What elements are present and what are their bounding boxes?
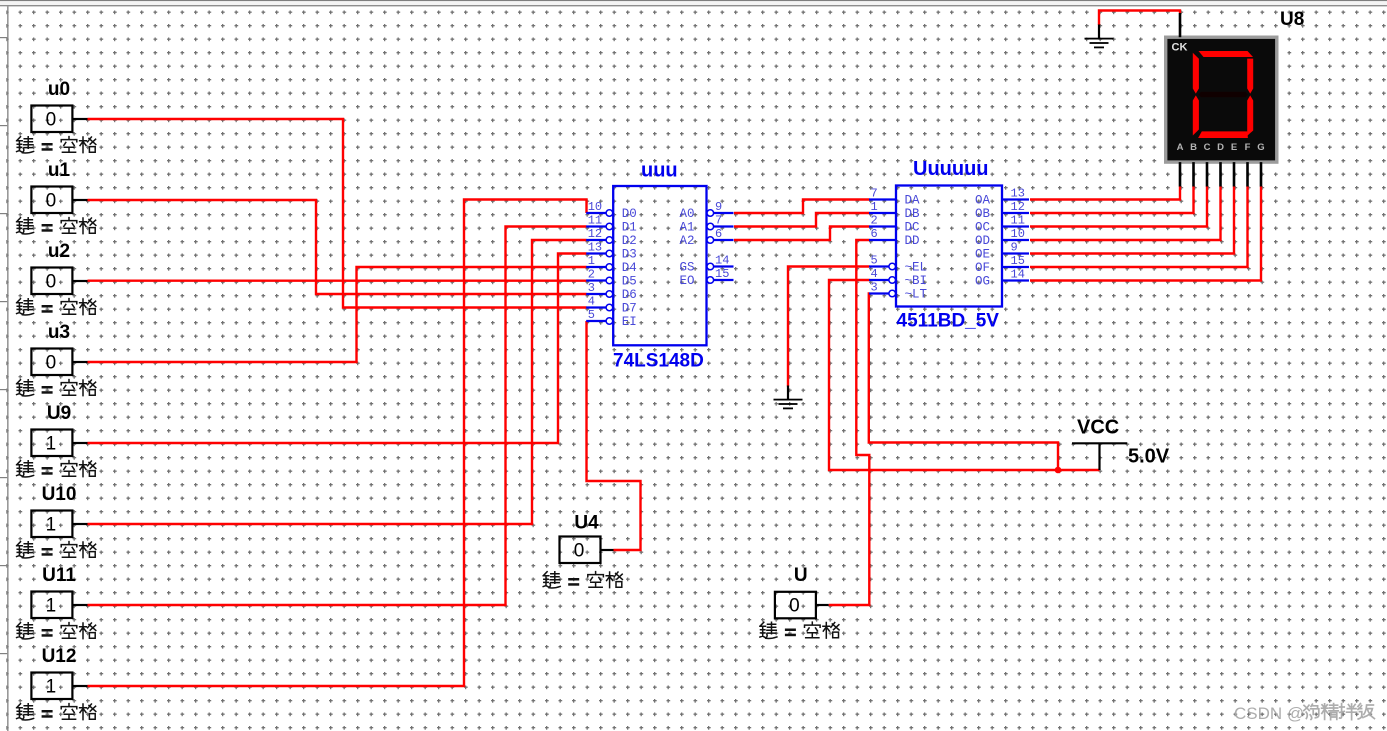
svg-text:OG: OG	[975, 275, 990, 289]
svg-text:4: 4	[588, 295, 595, 309]
svg-text:DB: DB	[905, 207, 921, 221]
pin 13 OA	[975, 187, 1029, 208]
wire A1 to DB	[734, 213, 870, 227]
wire OF to display F	[1030, 186, 1248, 267]
wire display CK to ground	[1099, 11, 1180, 26]
svg-text:D7: D7	[622, 302, 637, 316]
pin 14 GS	[679, 254, 733, 275]
svg-text:1: 1	[46, 677, 57, 698]
svg-text:0: 0	[46, 272, 57, 293]
svg-text:OE: OE	[975, 248, 990, 262]
svg-text:~EL: ~EL	[905, 261, 928, 275]
switch U (SPDT key component)	[760, 565, 839, 639]
wire u1 to D6	[88, 200, 587, 294]
pin 15 OF	[975, 254, 1029, 275]
svg-text:D5: D5	[622, 275, 637, 289]
wire OD to display D	[1030, 186, 1221, 240]
svg-text:u1: u1	[48, 160, 71, 181]
svg-text:10: 10	[1011, 227, 1025, 241]
svg-text:12: 12	[1011, 200, 1025, 214]
svg-text:2: 2	[588, 268, 595, 282]
svg-text:B: B	[1190, 142, 1197, 153]
pin 4 ~BI	[869, 267, 927, 288]
segment C lit	[1247, 95, 1253, 135]
svg-text:0: 0	[574, 541, 585, 562]
svg-text:OB: OB	[975, 207, 991, 221]
svg-text:1: 1	[46, 515, 57, 536]
svg-text:3: 3	[871, 281, 878, 295]
switch u1 (SPDT key component)	[17, 160, 96, 234]
svg-text:EI: EI	[622, 315, 637, 329]
svg-text:U9: U9	[47, 403, 71, 424]
svg-text:A0: A0	[679, 207, 694, 221]
pin 14 OG	[975, 268, 1029, 289]
svg-text:U8: U8	[1280, 9, 1304, 30]
pin 12 OB	[975, 200, 1029, 221]
svg-text:uuu: uuu	[641, 160, 678, 182]
ground GND1 (display CK)	[1085, 25, 1114, 49]
svg-text:E: E	[1231, 142, 1237, 153]
switch u3 (SPDT key component)	[17, 322, 96, 396]
pin 1 DB	[869, 200, 920, 221]
switch U4 (SPDT key component)	[543, 513, 622, 589]
pin 13 D3	[586, 241, 637, 262]
svg-text:DD: DD	[905, 234, 920, 248]
svg-text:GS: GS	[679, 261, 694, 275]
watermark CSDN	[1234, 704, 1374, 723]
pin 2 DC	[869, 214, 920, 235]
segment F lit	[1193, 53, 1199, 94]
wire U12 to D0	[88, 200, 587, 687]
svg-text:1: 1	[588, 254, 595, 268]
display body	[1166, 37, 1277, 162]
pin 5 ~EL	[869, 254, 927, 275]
wire OC to display C	[1030, 186, 1207, 227]
wire OG to display G	[1030, 186, 1261, 281]
svg-text:5.0V: 5.0V	[1128, 446, 1170, 468]
pin 10 D0	[586, 200, 637, 221]
svg-text:U10: U10	[42, 484, 77, 505]
svg-text:VCC: VCC	[1077, 417, 1119, 439]
svg-text:U: U	[794, 565, 808, 586]
svg-text:D4: D4	[622, 261, 637, 275]
svg-text:7: 7	[715, 214, 722, 228]
svg-text:CK: CK	[1172, 42, 1188, 54]
wire U9 to D3	[88, 254, 587, 444]
svg-text:D2: D2	[622, 234, 637, 248]
svg-text:5: 5	[588, 308, 595, 322]
svg-text:11: 11	[588, 214, 602, 228]
svg-text:11: 11	[1011, 214, 1025, 228]
pin 9 OE	[975, 241, 1029, 262]
svg-text:U4: U4	[574, 513, 599, 534]
svg-text:Uuuuuu: Uuuuuu	[913, 158, 989, 180]
svg-text:3: 3	[588, 281, 595, 295]
svg-text:9: 9	[715, 200, 722, 214]
svg-text:u0: u0	[48, 79, 70, 100]
svg-text:1: 1	[871, 200, 878, 214]
svg-text:A2: A2	[679, 234, 694, 248]
svg-text:EO: EO	[679, 274, 694, 288]
wire U11 to D1	[88, 227, 587, 606]
pin 1 D4	[586, 254, 637, 275]
segment D lit	[1198, 131, 1248, 138]
window top border	[0, 0, 1387, 1]
pin 3 D6	[586, 281, 637, 302]
pin D stub	[1219, 162, 1222, 186]
segment G unlit	[1199, 92, 1249, 97]
segment A lit	[1199, 51, 1254, 57]
pin 10 OD	[975, 227, 1029, 248]
svg-text:A: A	[1177, 142, 1184, 153]
svg-text:1: 1	[46, 434, 57, 455]
power VCC 5.0V	[1072, 417, 1170, 471]
pin 5 EI	[586, 308, 637, 329]
svg-text:0: 0	[789, 596, 800, 617]
svg-text:D3: D3	[622, 248, 637, 262]
svg-text:74LS148D: 74LS148D	[613, 351, 704, 372]
sheet left edge ruler	[0, 6, 6, 731]
svg-text:4: 4	[871, 267, 878, 281]
op-amp U6 4511BD_5V	[869, 158, 1029, 332]
switch U11 (SPDT key component)	[17, 565, 96, 639]
svg-text:0: 0	[46, 191, 57, 212]
svg-text:u3: u3	[48, 322, 70, 343]
pin F stub	[1246, 162, 1249, 186]
svg-text:2: 2	[871, 214, 878, 228]
pin C stub	[1206, 162, 1209, 186]
switch u0 (SPDT key component)	[17, 79, 96, 153]
wire OB to display B	[1030, 186, 1194, 213]
segment B lit	[1247, 59, 1253, 94]
svg-text:C: C	[1204, 142, 1211, 153]
pin 4 D7	[586, 295, 637, 316]
svg-text:D1: D1	[622, 221, 637, 235]
wire U10 to D2	[88, 240, 587, 524]
pin G stub	[1260, 162, 1263, 186]
svg-text:DC: DC	[905, 221, 920, 235]
pin 12 D2	[586, 227, 637, 248]
op-amp U5 74LS148D	[586, 160, 733, 372]
svg-text:15: 15	[1011, 254, 1025, 268]
svg-text:U12: U12	[42, 646, 77, 667]
svg-text:D: D	[1217, 142, 1224, 153]
wire U to DD	[829, 240, 870, 605]
wire A2 to DC	[734, 227, 870, 241]
ground GND2 (~EL)	[774, 386, 803, 410]
wire ~LT to VCC node	[869, 294, 1058, 471]
pin A stub	[1179, 162, 1182, 186]
svg-text:0: 0	[46, 353, 57, 374]
svg-text:~LT: ~LT	[905, 288, 928, 302]
pin 7 DA	[869, 187, 920, 208]
svg-text:D6: D6	[622, 288, 637, 302]
pin 11 D1	[586, 214, 637, 235]
pin 7 A1	[679, 214, 733, 235]
svg-text:U11: U11	[42, 565, 76, 586]
svg-text:G: G	[1257, 142, 1264, 153]
svg-text:A1: A1	[679, 221, 694, 235]
switch u2 (SPDT key component)	[17, 241, 96, 315]
switch U10 (SPDT key component)	[17, 484, 96, 558]
wire ~BI to VCC node	[829, 280, 1100, 470]
pin 15 EO	[679, 267, 733, 288]
wire ~EL to ground	[788, 267, 870, 387]
junction node VCC net	[1055, 467, 1062, 474]
svg-text:u2: u2	[48, 241, 70, 262]
svg-text:OC: OC	[975, 221, 990, 235]
svg-text:9: 9	[1011, 241, 1018, 255]
pin 11 OC	[975, 214, 1029, 235]
svg-text:OD: OD	[975, 234, 990, 248]
svg-text:CSDN @: CSDN @	[1234, 704, 1304, 723]
wire A0 to DA	[734, 200, 870, 214]
svg-text:0: 0	[46, 110, 57, 131]
wire U4 to EI	[587, 321, 641, 550]
svg-text:OF: OF	[975, 261, 990, 275]
wire u2 to D5	[88, 280, 587, 282]
pin CK stub	[1179, 13, 1182, 37]
svg-text:OA: OA	[975, 194, 991, 208]
pin B stub	[1192, 162, 1195, 186]
svg-text:10: 10	[588, 200, 602, 214]
svg-text:6: 6	[871, 227, 878, 241]
svg-text:7: 7	[871, 187, 878, 201]
svg-text:13: 13	[588, 241, 602, 255]
seven-segment display U8	[1166, 9, 1305, 187]
svg-text:6: 6	[715, 227, 722, 241]
switch U9 (SPDT key component)	[17, 403, 96, 477]
pin 6 A2	[679, 227, 733, 248]
svg-text:~BI: ~BI	[905, 274, 928, 288]
wire u0 to D7	[88, 119, 587, 308]
pin 2 D5	[586, 268, 637, 289]
switch U12 (SPDT key component)	[17, 646, 96, 720]
pin E stub	[1233, 162, 1236, 186]
svg-text:12: 12	[588, 227, 602, 241]
svg-text:F: F	[1245, 142, 1251, 153]
svg-text:13: 13	[1011, 187, 1025, 201]
svg-text:4511BD_5V: 4511BD_5V	[897, 311, 1000, 332]
svg-text:14: 14	[715, 254, 729, 268]
wire u3 to D4	[88, 267, 587, 362]
wire OA to display A	[1030, 186, 1180, 200]
svg-text:D0: D0	[622, 207, 637, 221]
svg-text:5: 5	[871, 254, 878, 268]
pin 9 A0	[679, 200, 733, 221]
pin 6 DD	[869, 227, 920, 248]
svg-text:14: 14	[1011, 268, 1025, 282]
pin 3 ~LT	[869, 281, 928, 302]
wire OE to display E	[1030, 186, 1234, 254]
digit 0 segments	[1193, 51, 1253, 138]
svg-text:15: 15	[715, 267, 729, 281]
svg-text:DA: DA	[905, 194, 921, 208]
svg-text:1: 1	[46, 596, 57, 617]
segment E lit	[1193, 95, 1199, 135]
